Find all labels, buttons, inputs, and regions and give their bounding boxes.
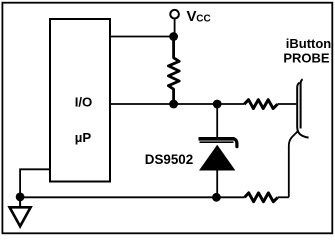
svg-text:PROBE: PROBE <box>283 51 330 66</box>
svg-text:V: V <box>187 8 197 25</box>
svg-text:µP: µP <box>75 130 92 145</box>
svg-text:DS9502: DS9502 <box>145 152 193 167</box>
svg-text:CC: CC <box>196 14 210 25</box>
svg-text:iButton: iButton <box>286 36 332 51</box>
svg-text:I/O: I/O <box>75 95 93 110</box>
